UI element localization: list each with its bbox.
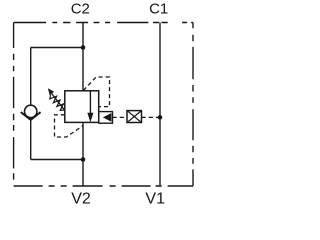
pilot piston box (right of valve) bbox=[99, 112, 113, 124]
orifice O1: box bbox=[127, 111, 142, 123]
pilot line: spring side (dashed) bbox=[55, 115, 84, 137]
wire: upper branch to check valve bbox=[31, 47, 83, 49]
check valve CV1: ball bbox=[25, 105, 37, 117]
pilot line: internal pilot from valve top (dashed) bbox=[83, 77, 109, 107]
wire: lower branch from check valve bbox=[31, 159, 83, 161]
node: junction lower branch bbox=[81, 157, 86, 162]
svg-text:V2: V2 bbox=[71, 191, 91, 208]
adjustment arrow shaft bbox=[50, 92, 64, 110]
wire: valve bottom down to V2 port bbox=[82, 122, 84, 186]
svg-text:V1: V1 bbox=[145, 191, 165, 208]
adjustable spring: zigzag bbox=[50, 95, 65, 111]
relief valve flow path arrowhead bbox=[87, 113, 93, 122]
wire: C2 port line down to valve top bbox=[82, 23, 84, 91]
wire: check valve upper vertical bbox=[30, 48, 32, 106]
wire: C1-V1 line bbox=[159, 23, 161, 187]
wire: check valve lower vertical bbox=[30, 120, 32, 160]
adjustment arrow head bbox=[48, 88, 54, 95]
svg-text:C1: C1 bbox=[149, 1, 168, 18]
pilot line: orifice to C1 line (dashed) bbox=[142, 116, 161, 118]
node: junction upper branch bbox=[81, 45, 86, 50]
node: junction pilot on C1 line bbox=[158, 115, 163, 120]
pilot line: piston to orifice (dashed) bbox=[113, 116, 127, 118]
svg-text:C2: C2 bbox=[71, 1, 90, 18]
orifice O1: X bbox=[127, 111, 142, 123]
component envelope (phantom dashed border) bbox=[14, 23, 193, 187]
pilot piston arrow bbox=[103, 113, 112, 122]
check valve CV1: seat bbox=[21, 112, 41, 120]
relief valve body (envelope box) bbox=[65, 91, 99, 123]
relief valve flow path line bbox=[89, 91, 91, 114]
